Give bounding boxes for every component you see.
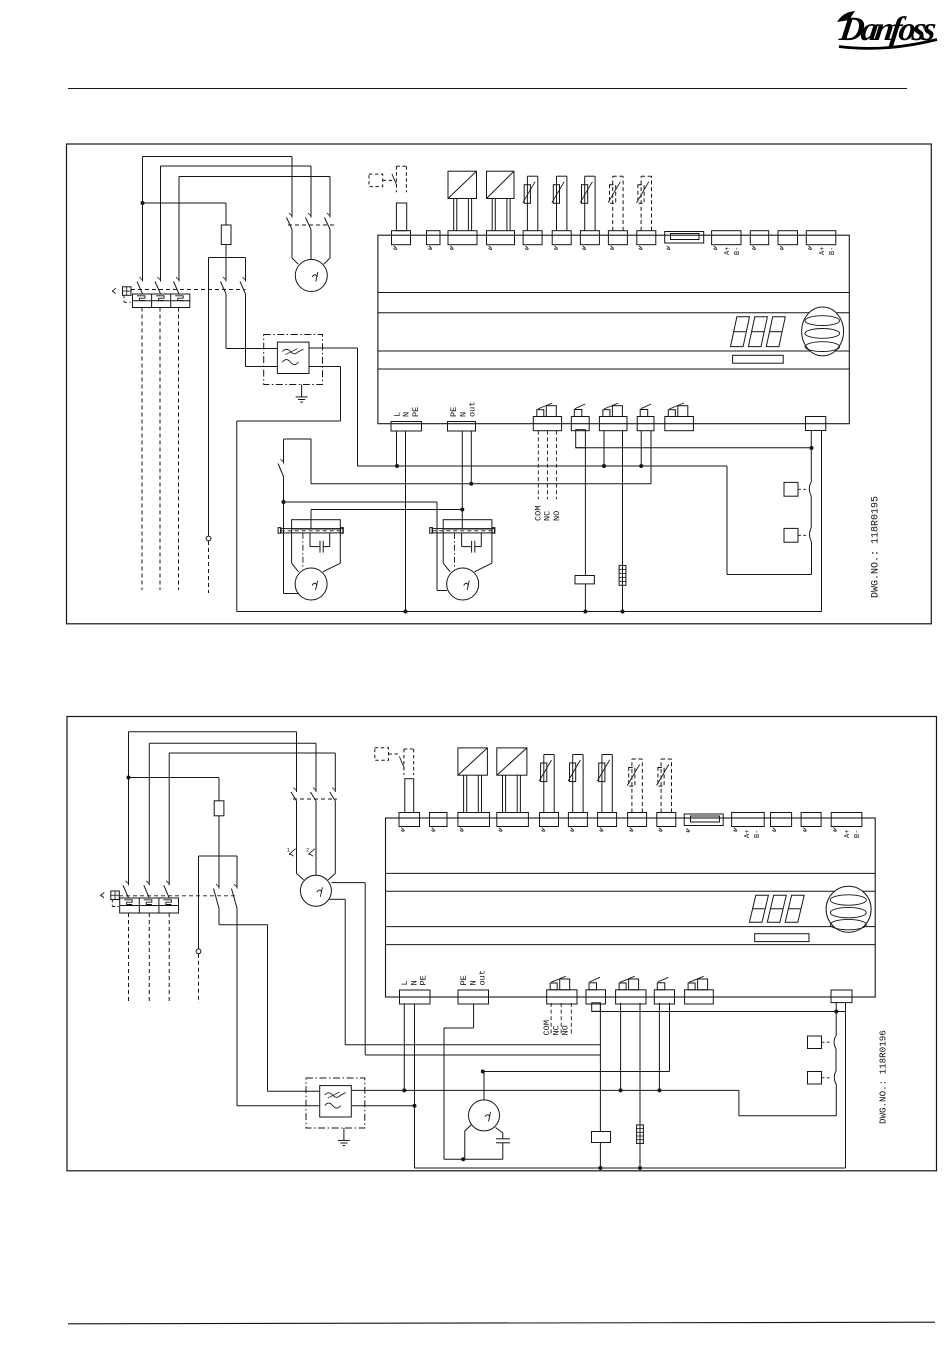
svg-text:2: 2 [306, 847, 309, 854]
svg-text:NO: NO [561, 1025, 571, 1035]
svg-text:PE: PE [419, 975, 429, 985]
svg-text:A+: A+ [844, 830, 852, 838]
svg-text:NO: NO [552, 511, 562, 521]
svg-text:DWG.NO.: 118R0196: DWG.NO.: 118R0196 [878, 1030, 889, 1124]
svg-text:A+: A+ [724, 247, 732, 255]
svg-text:A+: A+ [744, 830, 752, 838]
svg-text:out: out [478, 970, 488, 985]
svg-text:PE: PE [411, 407, 421, 417]
svg-text:A+: A+ [819, 247, 827, 255]
svg-text:DWG.NO.: 118R0195: DWG.NO.: 118R0195 [871, 496, 882, 598]
svg-text:B-: B- [734, 247, 742, 255]
svg-text:B-: B- [829, 247, 837, 255]
svg-text:out: out [468, 402, 478, 417]
svg-text:B-: B- [854, 830, 862, 838]
svg-text:B-: B- [754, 830, 762, 838]
